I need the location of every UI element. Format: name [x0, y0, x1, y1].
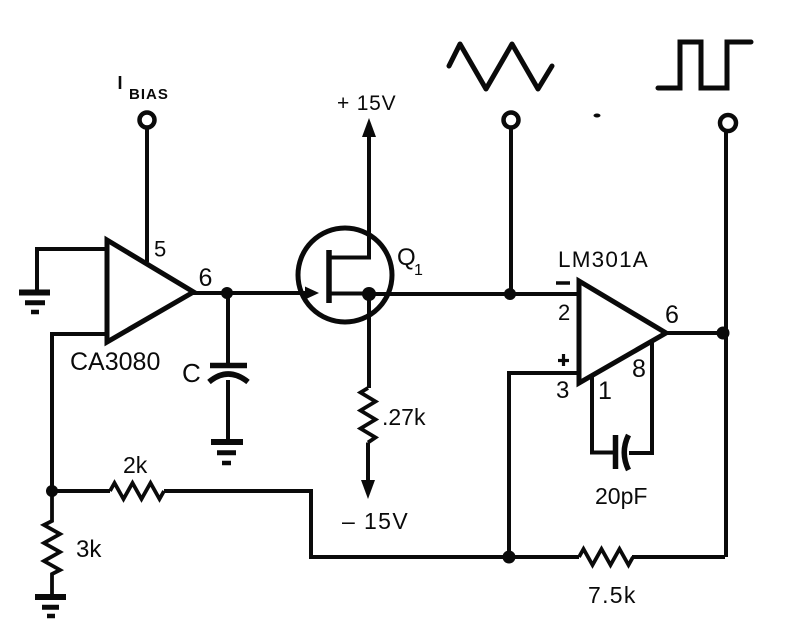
resistor R .27k: [361, 388, 376, 443]
op-amp U2 LM301A: [579, 281, 666, 383]
wire pin 8 down: [650, 341, 654, 453]
svg-text:2k: 2k: [123, 452, 148, 478]
wire node to capacitor C: [226, 293, 230, 363]
node output junction: [717, 327, 730, 340]
ground G2 (capacitor C): [211, 439, 243, 445]
capacitor C2 20pF: [613, 435, 619, 469]
resistor R 3k: [44, 491, 60, 594]
svg-text:6: 6: [199, 264, 213, 292]
wire CA3080 output to Q1 gate: [193, 291, 309, 295]
Q1 source lead: [331, 292, 369, 296]
ground G1 wire (CA3080 + input): [37, 249, 107, 290]
svg-text:+ 15V: + 15V: [337, 92, 396, 115]
supply -15V arrow: [366, 443, 370, 482]
minus sign pin 2: [556, 281, 570, 285]
svg-text:3k: 3k: [76, 536, 102, 563]
svg-text:.27k: .27k: [382, 404, 426, 430]
svg-text:1: 1: [414, 262, 423, 279]
triangle-wave symbol: [449, 44, 552, 89]
resistor R 7.5k: [579, 549, 633, 565]
svg-text:LM301A: LM301A: [558, 247, 649, 272]
svg-text:BIAS: BIAS: [129, 86, 169, 103]
Q1 gate bar: [326, 250, 332, 303]
svg-text:Q: Q: [397, 244, 416, 271]
node bottom rail junction: [503, 551, 516, 564]
svg-text:1: 1: [598, 377, 612, 405]
plus sign pin 3: [558, 359, 569, 362]
node Q1 source junction: [362, 287, 376, 301]
op-amp U1 CA3080: [107, 240, 194, 342]
svg-text:8: 8: [632, 355, 646, 383]
svg-text:– 15V: – 15V: [342, 508, 409, 534]
wire I_BIAS to CA3080 pin 5: [145, 128, 149, 262]
wire cap 20pF to pin8: [629, 451, 654, 455]
node feedback left junction: [46, 485, 58, 497]
wire LM301A pin 3: [509, 373, 579, 557]
svg-text:C: C: [182, 358, 201, 388]
svg-text:20pF: 20pF: [595, 483, 647, 509]
svg-text:7.5k: 7.5k: [588, 582, 637, 608]
svg-text:5: 5: [154, 237, 166, 262]
wire capacitor C to ground: [226, 380, 230, 440]
svg-text:CA3080: CA3080: [70, 348, 160, 376]
square-wave symbol: [658, 42, 751, 88]
wire 2k to bottom rail: [164, 491, 320, 557]
wire triangle terminal down: [509, 128, 513, 294]
terminal square output: [720, 115, 736, 131]
node output CA3080 junction: [221, 287, 233, 299]
terminal triangle output: [504, 113, 519, 128]
capacitor C: [210, 363, 247, 369]
speck artifact: [594, 114, 601, 118]
wire square terminal down to feedback: [724, 131, 728, 557]
wire pin1 to cap 20pF: [590, 451, 613, 455]
Q1 drain lead: [331, 240, 369, 258]
ground G1: [19, 290, 50, 296]
svg-text:I: I: [118, 73, 123, 93]
wire CA3080 lower input feedback: [52, 334, 107, 491]
wire LM301A output: [666, 331, 725, 335]
svg-text:3: 3: [556, 377, 569, 404]
transistor Q1 (JFET): [298, 228, 392, 322]
svg-text:2: 2: [558, 300, 570, 325]
wire bottom rail right: [632, 555, 725, 559]
wire bottom rail left: [311, 555, 579, 559]
supply +15V arrow: [367, 133, 371, 257]
node triangle output junction: [504, 288, 516, 300]
svg-text:6: 6: [665, 301, 679, 329]
wire Q1 source to LM301A pin 2: [369, 292, 579, 296]
ground G3 (3k): [35, 594, 66, 600]
wire junction to 2k: [52, 489, 110, 493]
wire Q1 source down to resistor: [367, 294, 371, 388]
Q1 gate arrowhead: [305, 287, 319, 300]
terminal I_BIAS: [140, 113, 155, 128]
resistor R 2k: [110, 483, 164, 499]
wire pin 1 down: [590, 376, 594, 453]
